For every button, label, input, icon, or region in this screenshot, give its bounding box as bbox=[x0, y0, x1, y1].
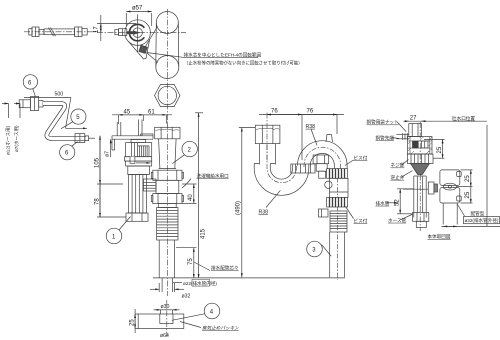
svg-text:R38: R38 bbox=[306, 124, 316, 130]
dimension (490) overall height bbox=[236, 128, 256, 278]
svg-text:ø30: ø30 bbox=[161, 304, 170, 310]
dimension 25 flange bbox=[129, 309, 138, 333]
drain pipe note bbox=[376, 200, 399, 207]
stop valve component 1 body bbox=[125, 140, 152, 175]
section standpipe tube bbox=[414, 176, 426, 218]
mounting plate bbox=[112, 134, 153, 150]
faucet vertical centerline bbox=[97, 9, 186, 127]
label circle 4 bbox=[172, 303, 220, 327]
trap U-bend bbox=[254, 164, 309, 196]
trap inlet centerline bbox=[266, 113, 268, 163]
screw note upper bbox=[345, 154, 368, 165]
tee fitting on pipe 2 bbox=[151, 170, 183, 203]
dimension ø57 bbox=[126, 6, 151, 27]
svg-text:105: 105 bbox=[95, 157, 101, 168]
svg-text:ネジ部: ネジ部 bbox=[391, 162, 405, 169]
R38 label upper bbox=[306, 124, 318, 146]
trap union nut A bbox=[291, 164, 315, 173]
label circle 1 bbox=[106, 217, 130, 244]
svg-text:61: 61 bbox=[148, 110, 155, 116]
svg-text:ビス付: ビス付 bbox=[354, 217, 368, 224]
svg-text:52: 52 bbox=[395, 199, 401, 206]
svg-text:76: 76 bbox=[307, 108, 314, 114]
svg-text:R38: R38 bbox=[259, 210, 269, 216]
trap standpipe joint inside bend bbox=[313, 155, 329, 178]
drain pipe 2 hex nut bbox=[155, 127, 180, 139]
pipe 2 bottom stub (ø22) bbox=[162, 278, 172, 292]
section check valve funnel bbox=[411, 164, 430, 177]
svg-text:25: 25 bbox=[437, 146, 443, 153]
section nut ribs bbox=[408, 154, 434, 164]
label circle 2 bbox=[173, 141, 198, 163]
dimension 105 / 78 bbox=[95, 136, 127, 217]
svg-text:ビス付: ビス付 bbox=[354, 154, 368, 161]
stop valve lower tube bbox=[129, 175, 147, 214]
svg-text:45: 45 bbox=[124, 110, 131, 116]
rotation range obround bbox=[156, 12, 179, 79]
svg-text:(490): (490) bbox=[236, 201, 242, 215]
pipe 2 threaded section bbox=[157, 204, 178, 240]
washer hose note bbox=[182, 172, 229, 188]
spout position extension line bbox=[486, 125, 488, 227]
leader to rotation note bbox=[147, 53, 184, 58]
svg-text:排水管: 排水管 bbox=[376, 200, 390, 207]
svg-text:78: 78 bbox=[95, 198, 101, 205]
wall bracket bolt on bend bbox=[326, 135, 333, 142]
svg-text:17: 17 bbox=[94, 26, 100, 33]
flange centerline bbox=[166, 300, 168, 337]
svg-text:配管型: 配管型 bbox=[471, 210, 485, 217]
trap outlet threads bbox=[330, 211, 347, 232]
drain pipe end level line bbox=[153, 277, 345, 279]
dimension 415 bbox=[195, 113, 207, 278]
trap inlet pipe bbox=[259, 144, 275, 165]
dimension ø32 outer bbox=[441, 205, 500, 227]
copper nut note bbox=[367, 119, 407, 132]
label circle 6 (top) bbox=[23, 75, 37, 96]
pipe 2 centerline bbox=[166, 123, 168, 296]
svg-text:臭気止めパッキン: 臭気止めパッキン bbox=[202, 326, 239, 331]
rotation range note text bbox=[184, 52, 303, 67]
dimension 52 bbox=[395, 189, 414, 214]
trap upper bend (inverted U) bbox=[298, 141, 348, 169]
svg-text:415: 415 bbox=[201, 228, 207, 239]
copper hose pipe (z-bend) bbox=[43, 103, 86, 138]
dimension ø30 flange hole bbox=[154, 304, 180, 314]
check valve note bbox=[391, 171, 413, 181]
R38 label lower bbox=[259, 190, 281, 215]
hose top fitting bbox=[19, 97, 43, 111]
svg-text:ホース管: ホース管 bbox=[388, 217, 407, 224]
faucet body circles (side view) bbox=[125, 15, 151, 53]
svg-text:75: 75 bbox=[188, 258, 194, 265]
svg-text:76: 76 bbox=[271, 108, 278, 114]
svg-text:25: 25 bbox=[465, 175, 471, 182]
tee side handle knob bbox=[144, 179, 157, 191]
wall rod assembly bbox=[29, 27, 87, 37]
pipe 2 lower straight pipe bbox=[159, 240, 174, 278]
screw note lower bbox=[346, 207, 368, 225]
thread note bbox=[391, 160, 409, 169]
trap valve body bbox=[325, 178, 348, 197]
dimension 40 bbox=[182, 184, 197, 203]
faucet mounting hexagon bbox=[155, 85, 181, 107]
svg-text:排水芯を中心としたEFH-4の回転範囲: 排水芯を中心としたEFH-4の回転範囲 bbox=[184, 52, 262, 59]
floor flange component 4 bbox=[138, 314, 184, 329]
svg-text:本体取回図: 本体取回図 bbox=[428, 233, 451, 240]
dimension 500 bbox=[24, 92, 87, 129]
dimension ø7 riser bbox=[105, 139, 111, 157]
svg-text:排水配管芯々: 排水配管芯々 bbox=[211, 265, 239, 272]
section bottom nut bbox=[413, 213, 429, 228]
section valve body (hatched) bbox=[408, 137, 433, 155]
trap outlet ribbed nut B bbox=[327, 169, 348, 179]
dimension 17 bbox=[94, 15, 137, 41]
section centerline bbox=[419, 122, 421, 231]
wall pipe adapter (right piece) bbox=[440, 170, 461, 203]
label circle 3 bbox=[307, 241, 332, 257]
svg-text:洗濯機給水用口: 洗濯機給水用口 bbox=[197, 172, 230, 179]
faucet spout bbox=[115, 29, 127, 36]
section side outlet bbox=[403, 182, 438, 194]
svg-text:ø57: ø57 bbox=[132, 6, 143, 12]
svg-text:25: 25 bbox=[129, 319, 135, 326]
svg-text:ø64: ø64 bbox=[160, 333, 169, 339]
dimension 25/25 adapter bbox=[457, 170, 473, 203]
dimension 75 bbox=[176, 248, 239, 278]
svg-text:銅管用袋ナット: 銅管用袋ナット bbox=[367, 119, 399, 126]
dimension ø12 ø7 hose labels bbox=[2, 104, 20, 156]
hose bottom fitting bbox=[75, 134, 95, 143]
adapter lower pipe bbox=[443, 203, 457, 225]
dimension ø22 bbox=[173, 279, 218, 287]
rotation vee lines bbox=[145, 27, 159, 63]
trap outlet pipe bbox=[330, 232, 345, 277]
section inlet stub bbox=[409, 124, 422, 137]
svg-text:27: 27 bbox=[410, 116, 417, 122]
trap inlet hex nut bbox=[255, 125, 280, 143]
trap centerline arcs bbox=[267, 145, 341, 280]
copper tip note bbox=[376, 134, 400, 141]
svg-text:25: 25 bbox=[465, 191, 471, 198]
svg-text:500: 500 bbox=[55, 92, 64, 98]
svg-text:（止水栓等の障害物がない向きに回転させて取り付け可能）: （止水栓等の障害物がない向きに回転させて取り付け可能） bbox=[184, 60, 303, 67]
label circle 6 (bottom) bbox=[60, 142, 78, 160]
copper pipe inlet fitting bbox=[397, 133, 409, 140]
wall rod assembly centerline bbox=[24, 31, 98, 33]
trap side tap bbox=[319, 209, 329, 217]
drain pipe 2 tapered shank bbox=[159, 139, 177, 169]
svg-text:逆止弁: 逆止弁 bbox=[391, 174, 405, 181]
dimension 45 / 61 bbox=[112, 110, 172, 124]
supply riser pipes on mounting plate bbox=[117, 120, 142, 136]
faucet body taper outline bbox=[129, 40, 150, 60]
label circle 5 bbox=[61, 109, 86, 129]
stop valve bottom nut bbox=[126, 213, 148, 221]
svg-text:吐水口位置: 吐水口位置 bbox=[452, 115, 475, 122]
hose part note bbox=[388, 214, 413, 224]
dimension 25 (top right) bbox=[424, 140, 445, 159]
faucet handle (hatched) bbox=[139, 45, 147, 53]
section view: dimension 27 bbox=[404, 116, 488, 122]
svg-text:ø7: ø7 bbox=[105, 151, 111, 157]
svg-text:40: 40 bbox=[188, 194, 194, 201]
svg-text:ø32: ø32 bbox=[182, 294, 191, 300]
dimension 76 / 76 bbox=[259, 108, 344, 160]
trap ribbed nut C bbox=[327, 197, 348, 207]
dimension ø32 pipe bbox=[150, 283, 191, 300]
svg-text:ø32(排水管外径): ø32(排水管外径) bbox=[465, 217, 499, 224]
